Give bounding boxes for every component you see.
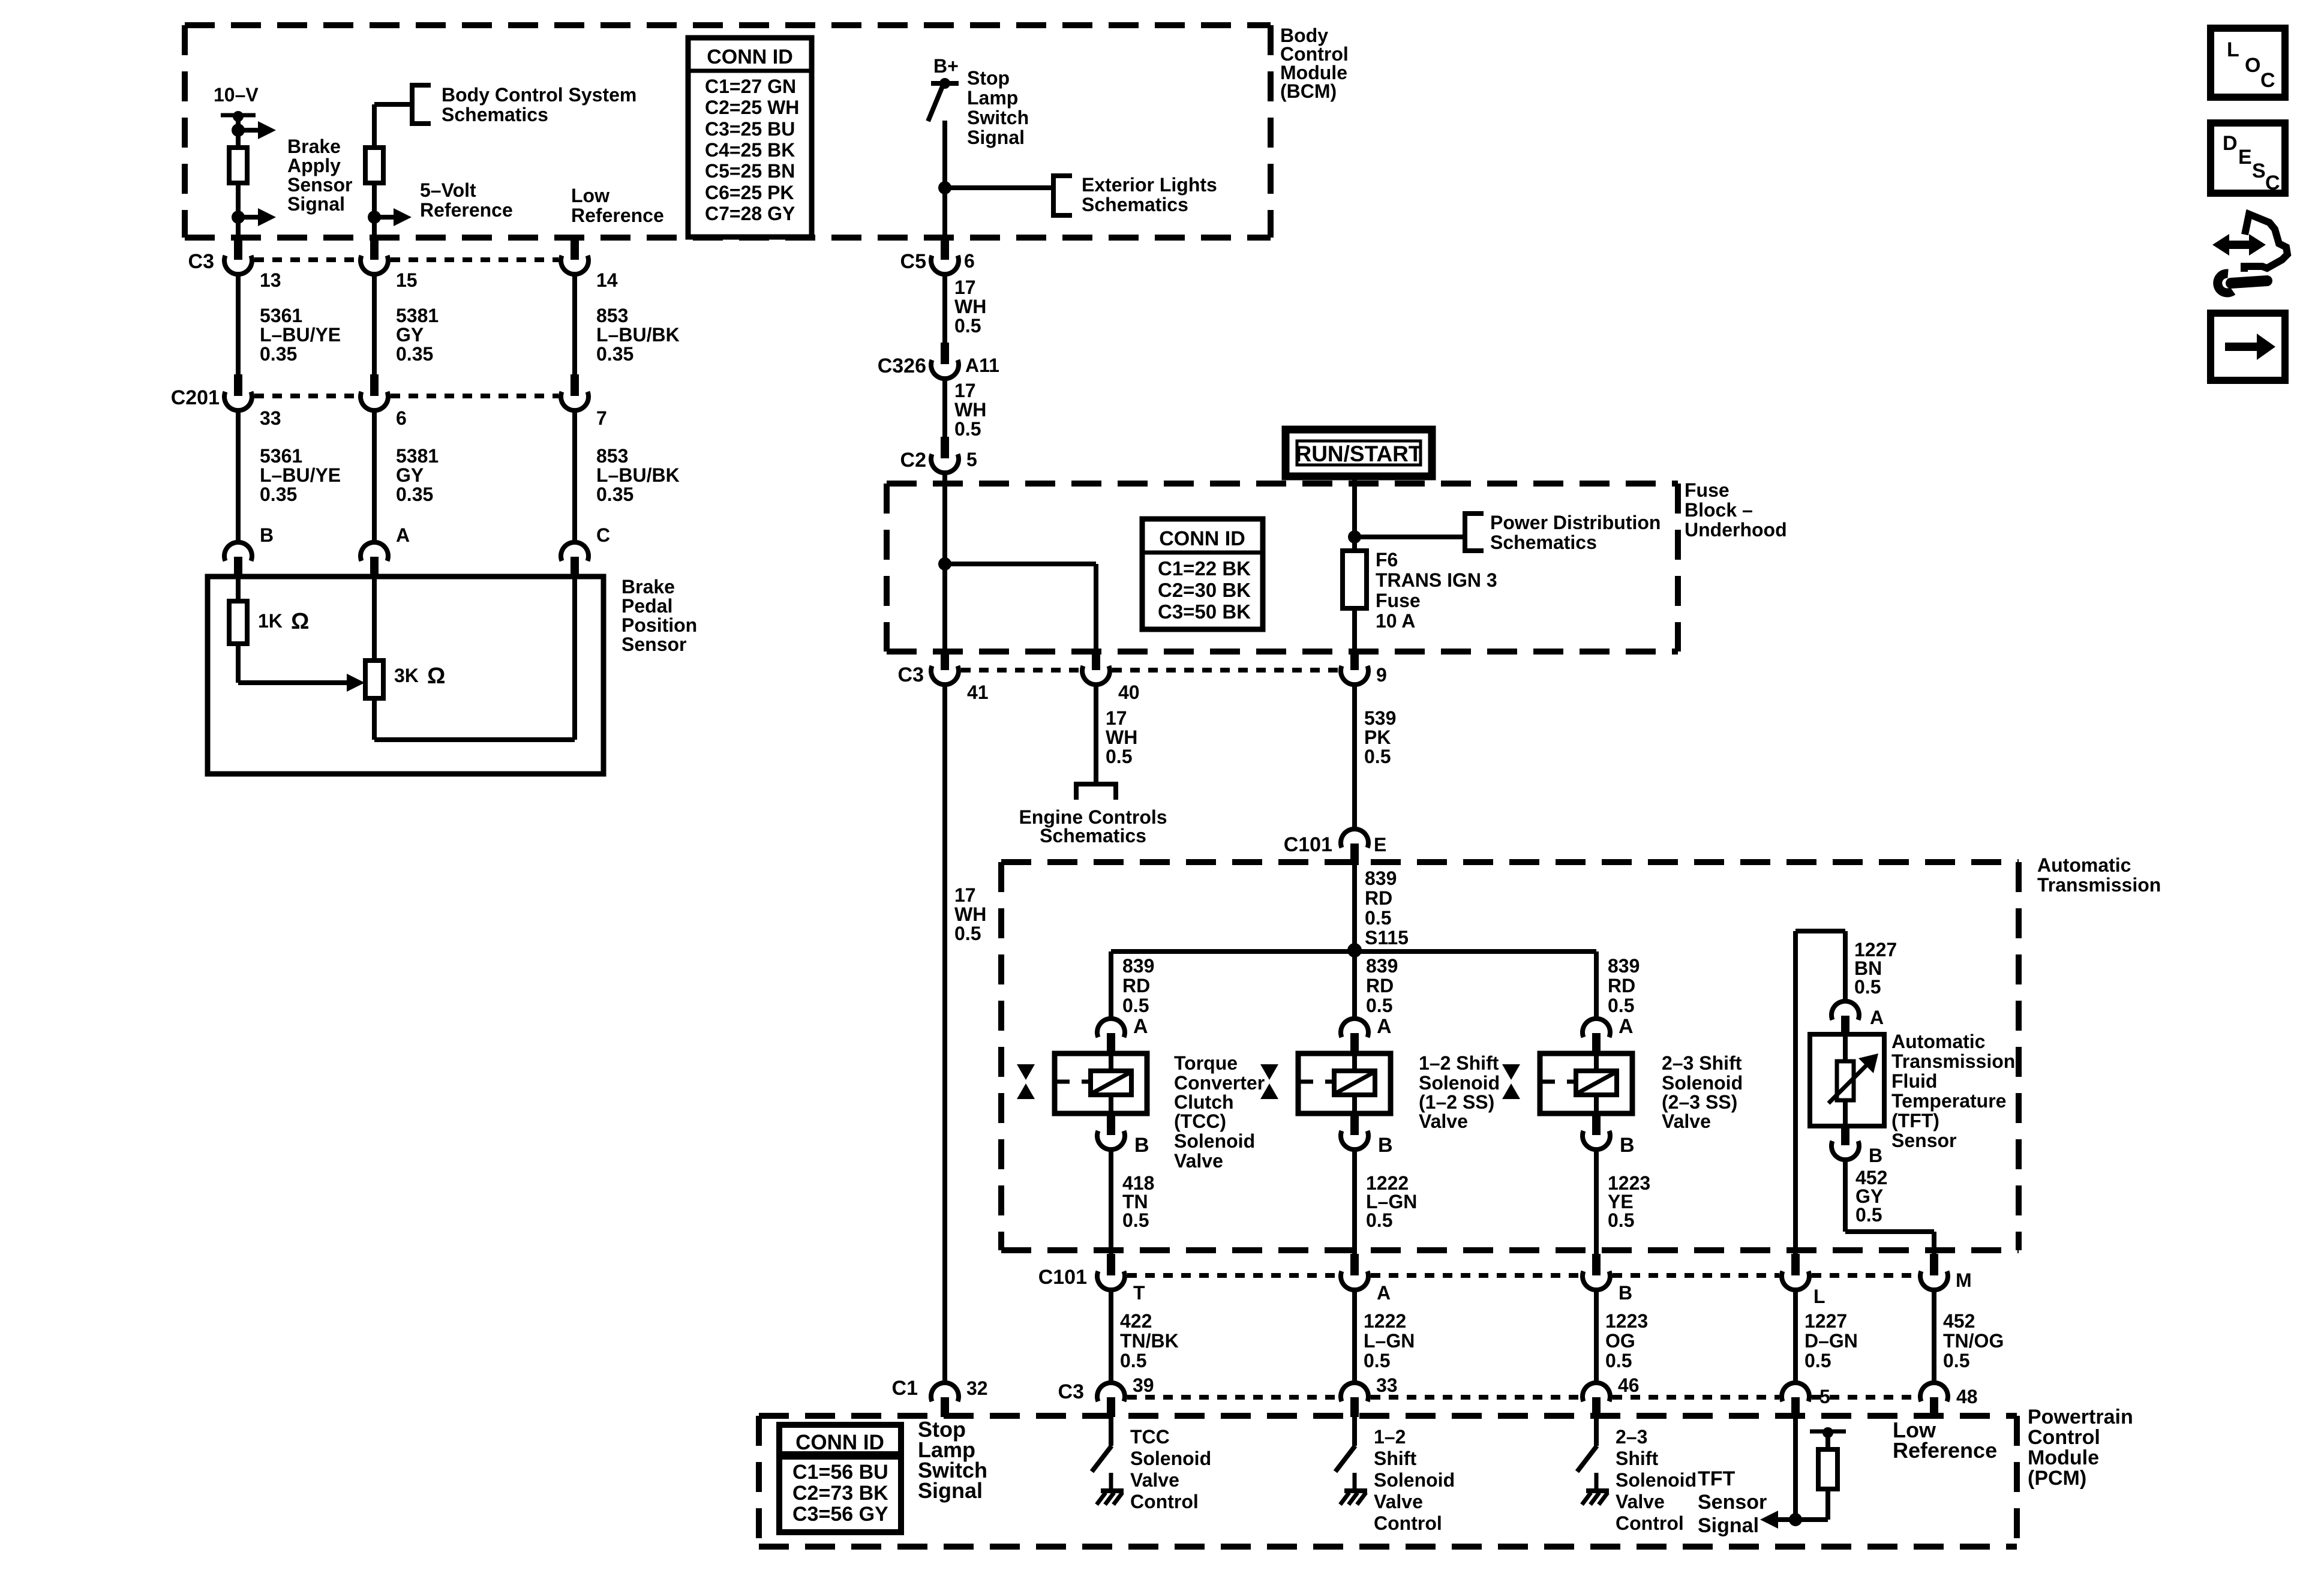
svg-text:0.5: 0.5 [1122, 1209, 1149, 1231]
svg-text:OG: OG [1605, 1330, 1635, 1352]
svg-text:40: 40 [1118, 682, 1140, 703]
svg-text:C101: C101 [1038, 1266, 1087, 1289]
svg-text:CONN ID: CONN ID [707, 46, 793, 68]
svg-text:Power Distribution: Power Distribution [1490, 512, 1661, 533]
svg-text:0.5: 0.5 [1608, 995, 1634, 1016]
svg-text:9: 9 [1376, 664, 1387, 686]
svg-text:46: 46 [1618, 1374, 1640, 1396]
svg-text:RD: RD [1365, 887, 1392, 909]
svg-text:0.5: 0.5 [1364, 1350, 1390, 1371]
svg-text:Shift: Shift [1616, 1448, 1658, 1469]
svg-text:Transmission: Transmission [2037, 874, 2161, 896]
svg-text:Schematics: Schematics [1082, 194, 1188, 215]
svg-text:0.35: 0.35 [260, 484, 297, 505]
svg-text:Low: Low [571, 185, 609, 206]
svg-text:Schematics: Schematics [442, 104, 548, 125]
svg-text:TN/BK: TN/BK [1120, 1330, 1179, 1352]
svg-text:0.5: 0.5 [1365, 907, 1391, 929]
svg-text:0.5: 0.5 [954, 923, 981, 944]
svg-text:C1: C1 [892, 1377, 918, 1400]
svg-text:Automatic: Automatic [2037, 854, 2131, 876]
svg-text:Position: Position [621, 614, 697, 636]
svg-text:(TFT): (TFT) [1891, 1110, 1939, 1131]
svg-text:C3: C3 [898, 664, 924, 686]
svg-text:(PCM): (PCM) [2028, 1467, 2086, 1490]
svg-text:Valve: Valve [1662, 1110, 1711, 1132]
svg-text:Underhood: Underhood [1685, 519, 1787, 541]
svg-text:0.5: 0.5 [954, 315, 981, 337]
svg-text:C5: C5 [900, 250, 926, 273]
svg-text:Sensor: Sensor [1698, 1491, 1767, 1514]
svg-text:Sensor: Sensor [1891, 1130, 1956, 1151]
svg-text:(TCC): (TCC) [1174, 1110, 1226, 1132]
svg-text:C326: C326 [878, 355, 926, 377]
svg-text:RUN/START: RUN/START [1295, 442, 1422, 466]
svg-text:C3: C3 [1058, 1380, 1084, 1403]
svg-text:Solenoid: Solenoid [1616, 1469, 1697, 1491]
svg-text:0.5: 0.5 [1364, 746, 1391, 767]
svg-text:WH: WH [1106, 727, 1137, 748]
svg-text:Reference: Reference [571, 205, 664, 226]
svg-text:C1=22 BK: C1=22 BK [1158, 557, 1251, 580]
svg-text:Ω: Ω [427, 664, 445, 689]
svg-text:Torque: Torque [1174, 1052, 1238, 1074]
svg-text:Solenoid: Solenoid [1174, 1130, 1255, 1152]
svg-text:2–3: 2–3 [1616, 1426, 1647, 1448]
svg-text:5361: 5361 [260, 445, 302, 467]
svg-text:(BCM): (BCM) [1280, 80, 1337, 102]
svg-text:Switch: Switch [967, 107, 1029, 128]
svg-text:C1=56 BU: C1=56 BU [792, 1461, 888, 1484]
svg-text:Pedal: Pedal [621, 595, 672, 617]
svg-text:17: 17 [1106, 707, 1127, 729]
svg-text:0.5: 0.5 [1605, 1350, 1632, 1371]
svg-text:Reference: Reference [1893, 1438, 1997, 1463]
svg-text:1–2: 1–2 [1374, 1426, 1406, 1448]
svg-text:Powertrain: Powertrain [2028, 1406, 2133, 1428]
svg-text:Signal: Signal [287, 193, 345, 215]
svg-text:T: T [1133, 1282, 1145, 1304]
svg-text:C3: C3 [188, 250, 214, 273]
svg-text:D: D [2223, 132, 2238, 155]
svg-text:TN/OG: TN/OG [1943, 1330, 2004, 1352]
svg-text:Shift: Shift [1374, 1448, 1416, 1469]
svg-text:Signal: Signal [1698, 1514, 1759, 1537]
svg-text:C5=25 BN: C5=25 BN [705, 160, 795, 182]
svg-text:Schematics: Schematics [1490, 532, 1597, 553]
svg-text:RD: RD [1122, 975, 1150, 996]
svg-text:6: 6 [964, 250, 975, 272]
svg-text:C3=25 BU: C3=25 BU [705, 118, 795, 140]
svg-text:C6=25 PK: C6=25 PK [705, 182, 794, 203]
svg-text:Body Control System: Body Control System [442, 84, 636, 106]
svg-text:0.5: 0.5 [1366, 1209, 1392, 1231]
svg-text:C2=25 WH: C2=25 WH [705, 97, 799, 118]
svg-text:C2=30 BK: C2=30 BK [1158, 579, 1251, 601]
svg-text:L–BU/YE: L–BU/YE [260, 324, 341, 346]
svg-text:0.35: 0.35 [260, 343, 297, 365]
svg-text:S115: S115 [1365, 927, 1409, 948]
svg-text:1222: 1222 [1364, 1310, 1406, 1332]
svg-text:WH: WH [954, 903, 986, 925]
svg-text:M: M [1956, 1269, 1972, 1291]
svg-text:Solenoid: Solenoid [1130, 1448, 1211, 1469]
svg-text:O: O [2245, 54, 2260, 77]
svg-text:5381: 5381 [396, 305, 439, 326]
svg-text:0.5: 0.5 [1854, 976, 1881, 998]
svg-text:A: A [1377, 1015, 1392, 1038]
svg-text:17: 17 [954, 277, 976, 298]
svg-text:2–3 Shift: 2–3 Shift [1662, 1052, 1742, 1074]
svg-text:0.35: 0.35 [596, 484, 633, 505]
svg-text:(2–3 SS): (2–3 SS) [1662, 1091, 1737, 1113]
svg-text:Fuse: Fuse [1376, 590, 1421, 611]
svg-text:0.5: 0.5 [1943, 1350, 1969, 1371]
svg-text:839: 839 [1608, 955, 1640, 977]
svg-text:Automatic: Automatic [1891, 1031, 1985, 1052]
svg-text:839: 839 [1122, 955, 1154, 977]
svg-text:Valve: Valve [1419, 1110, 1468, 1132]
svg-text:Valve: Valve [1616, 1491, 1665, 1512]
svg-text:B+: B+ [933, 55, 959, 77]
svg-text:Valve: Valve [1374, 1491, 1423, 1512]
svg-text:839: 839 [1365, 867, 1397, 889]
svg-text:L–BU/BK: L–BU/BK [596, 464, 680, 486]
svg-text:13: 13 [260, 269, 281, 291]
svg-text:A11: A11 [965, 355, 999, 376]
svg-text:GY: GY [396, 324, 424, 346]
svg-text:853: 853 [596, 445, 628, 467]
svg-text:Brake: Brake [287, 136, 341, 157]
svg-text:Brake: Brake [621, 576, 675, 598]
svg-text:A: A [1377, 1282, 1391, 1304]
svg-text:Reference: Reference [420, 199, 513, 221]
svg-text:CONN ID: CONN ID [795, 1431, 884, 1454]
svg-text:RD: RD [1608, 975, 1635, 996]
svg-text:1–2 Shift: 1–2 Shift [1419, 1052, 1499, 1074]
svg-text:C: C [596, 524, 610, 546]
svg-text:10 A: 10 A [1376, 610, 1415, 632]
svg-text:Lamp: Lamp [967, 87, 1018, 109]
svg-text:1227: 1227 [1804, 1310, 1847, 1332]
svg-text:Schematics: Schematics [1040, 825, 1146, 846]
svg-text:L: L [1813, 1286, 1825, 1307]
svg-text:A: A [1870, 1007, 1884, 1028]
svg-text:452: 452 [1943, 1310, 1975, 1332]
svg-text:C4=25 BK: C4=25 BK [705, 139, 795, 161]
svg-text:WH: WH [954, 399, 986, 421]
svg-text:5381: 5381 [396, 445, 439, 467]
svg-text:E: E [2238, 146, 2252, 169]
svg-text:A: A [1619, 1015, 1634, 1038]
svg-text:Fuse: Fuse [1685, 479, 1730, 501]
svg-text:TRANS IGN 3: TRANS IGN 3 [1376, 569, 1497, 591]
svg-text:Valve: Valve [1130, 1469, 1179, 1491]
svg-text:5–Volt: 5–Volt [420, 179, 476, 201]
svg-text:1K: 1K [258, 610, 283, 632]
svg-text:D–GN: D–GN [1804, 1330, 1858, 1352]
svg-text:422: 422 [1120, 1310, 1152, 1332]
svg-text:B: B [1869, 1145, 1882, 1166]
svg-text:C2=73 BK: C2=73 BK [792, 1482, 888, 1505]
svg-text:L–GN: L–GN [1364, 1330, 1415, 1352]
svg-text:5: 5 [966, 449, 977, 470]
svg-text:F6: F6 [1376, 549, 1398, 571]
svg-text:B: B [1134, 1134, 1149, 1157]
svg-text:CONN ID: CONN ID [1159, 527, 1245, 550]
svg-text:RD: RD [1366, 975, 1394, 996]
svg-text:GY: GY [396, 464, 424, 486]
svg-text:Control: Control [1374, 1512, 1442, 1534]
svg-text:Module: Module [2028, 1446, 2099, 1469]
svg-text:B: B [1620, 1134, 1635, 1157]
svg-text:Solenoid: Solenoid [1419, 1072, 1500, 1094]
svg-text:Control: Control [1616, 1512, 1684, 1534]
svg-text:0.5: 0.5 [954, 418, 981, 440]
svg-text:Block –: Block – [1685, 499, 1753, 521]
svg-text:C: C [2260, 69, 2275, 92]
svg-text:Transmission: Transmission [1891, 1050, 2015, 1072]
svg-text:0.5: 0.5 [1366, 995, 1392, 1016]
svg-text:7: 7 [596, 407, 607, 429]
svg-text:14: 14 [596, 269, 618, 291]
svg-text:TCC: TCC [1130, 1426, 1170, 1448]
svg-text:C201: C201 [171, 386, 220, 409]
svg-text:0.35: 0.35 [596, 343, 633, 365]
svg-text:Solenoid: Solenoid [1374, 1469, 1455, 1491]
svg-text:Sensor: Sensor [621, 634, 686, 655]
svg-text:A: A [396, 524, 410, 546]
svg-text:B: B [1378, 1134, 1393, 1157]
svg-text:C7=28 GY: C7=28 GY [705, 203, 795, 224]
svg-text:C101: C101 [1284, 833, 1332, 856]
svg-text:Control: Control [2028, 1426, 2100, 1449]
svg-text:10–V: 10–V [214, 84, 259, 106]
svg-text:32: 32 [966, 1377, 988, 1399]
svg-text:C2: C2 [900, 449, 926, 472]
svg-text:Fluid: Fluid [1891, 1070, 1937, 1092]
svg-text:17: 17 [954, 380, 976, 401]
svg-text:C3=56 GY: C3=56 GY [792, 1503, 888, 1526]
svg-text:Temperature: Temperature [1891, 1090, 2006, 1112]
svg-text:Clutch: Clutch [1174, 1091, 1234, 1113]
svg-text:539: 539 [1364, 707, 1396, 729]
svg-text:L: L [2227, 38, 2239, 61]
svg-text:Signal: Signal [967, 127, 1025, 148]
svg-text:A: A [1133, 1015, 1148, 1038]
svg-text:17: 17 [954, 884, 976, 906]
svg-text:Apply: Apply [287, 155, 341, 176]
svg-text:E: E [1374, 834, 1386, 855]
svg-text:0.35: 0.35 [396, 343, 433, 365]
svg-text:C1=27 GN: C1=27 GN [705, 76, 796, 97]
svg-text:L–BU/BK: L–BU/BK [596, 324, 680, 346]
svg-text:33: 33 [1376, 1374, 1398, 1396]
svg-text:Exterior Lights: Exterior Lights [1082, 174, 1217, 196]
svg-text:Stop: Stop [967, 67, 1010, 89]
svg-text:5361: 5361 [260, 305, 302, 326]
svg-text:WH: WH [954, 296, 986, 317]
svg-text:(1–2 SS): (1–2 SS) [1419, 1091, 1494, 1113]
svg-text:C3=50 BK: C3=50 BK [1158, 601, 1251, 623]
svg-text:Valve: Valve [1174, 1150, 1223, 1172]
svg-text:TFT: TFT [1698, 1467, 1736, 1490]
svg-text:S: S [2252, 160, 2266, 182]
svg-text:41: 41 [967, 682, 989, 703]
svg-text:6: 6 [396, 407, 407, 429]
svg-text:Ω: Ω [291, 609, 309, 634]
svg-text:39: 39 [1133, 1374, 1154, 1396]
svg-text:Converter: Converter [1174, 1072, 1265, 1094]
svg-text:853: 853 [596, 305, 628, 326]
svg-text:0.5: 0.5 [1122, 995, 1149, 1016]
svg-text:Sensor: Sensor [287, 174, 352, 196]
svg-text:PK: PK [1364, 727, 1391, 748]
svg-text:839: 839 [1366, 955, 1398, 977]
svg-text:B: B [260, 524, 274, 546]
svg-text:0.5: 0.5 [1855, 1204, 1882, 1226]
svg-text:Control: Control [1130, 1491, 1199, 1512]
svg-text:0.35: 0.35 [396, 484, 433, 505]
svg-text:15: 15 [396, 269, 418, 291]
svg-text:L–BU/YE: L–BU/YE [260, 464, 341, 486]
svg-text:0.5: 0.5 [1106, 746, 1132, 767]
svg-text:0.5: 0.5 [1804, 1350, 1831, 1371]
svg-text:48: 48 [1956, 1386, 1978, 1407]
svg-text:Solenoid: Solenoid [1662, 1072, 1743, 1094]
svg-text:0.5: 0.5 [1608, 1209, 1634, 1231]
svg-text:B: B [1619, 1282, 1632, 1304]
svg-text:Signal: Signal [918, 1478, 983, 1503]
svg-text:33: 33 [260, 407, 281, 429]
svg-text:C: C [2265, 172, 2280, 194]
svg-text:0.5: 0.5 [1120, 1350, 1146, 1371]
svg-text:1223: 1223 [1605, 1310, 1648, 1332]
svg-text:3K: 3K [394, 665, 419, 686]
